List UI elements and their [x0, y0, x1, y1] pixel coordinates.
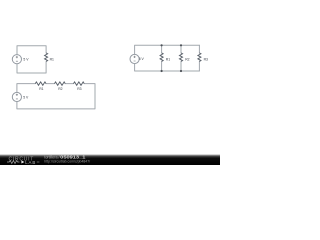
svg-text:5 V: 5 V — [23, 96, 29, 100]
svg-text:R2: R2 — [185, 57, 189, 61]
svg-text:LAB: LAB — [25, 160, 36, 165]
svg-text:5 V: 5 V — [139, 57, 145, 61]
svg-text:050913_1: 050913_1 — [60, 154, 86, 159]
svg-text:tortillera /: tortillera / — [44, 154, 60, 159]
svg-text:R2: R2 — [58, 87, 62, 91]
svg-text:5 V: 5 V — [23, 57, 29, 61]
svg-text:http://circuitlab.com/c/pb4847: http://circuitlab.com/c/pb4847/ — [44, 160, 90, 164]
svg-text:R1: R1 — [166, 57, 170, 61]
svg-text:R1: R1 — [50, 57, 54, 61]
svg-text:R1: R1 — [39, 87, 43, 91]
svg-text:R3: R3 — [204, 57, 208, 61]
svg-text:R3: R3 — [77, 87, 81, 91]
